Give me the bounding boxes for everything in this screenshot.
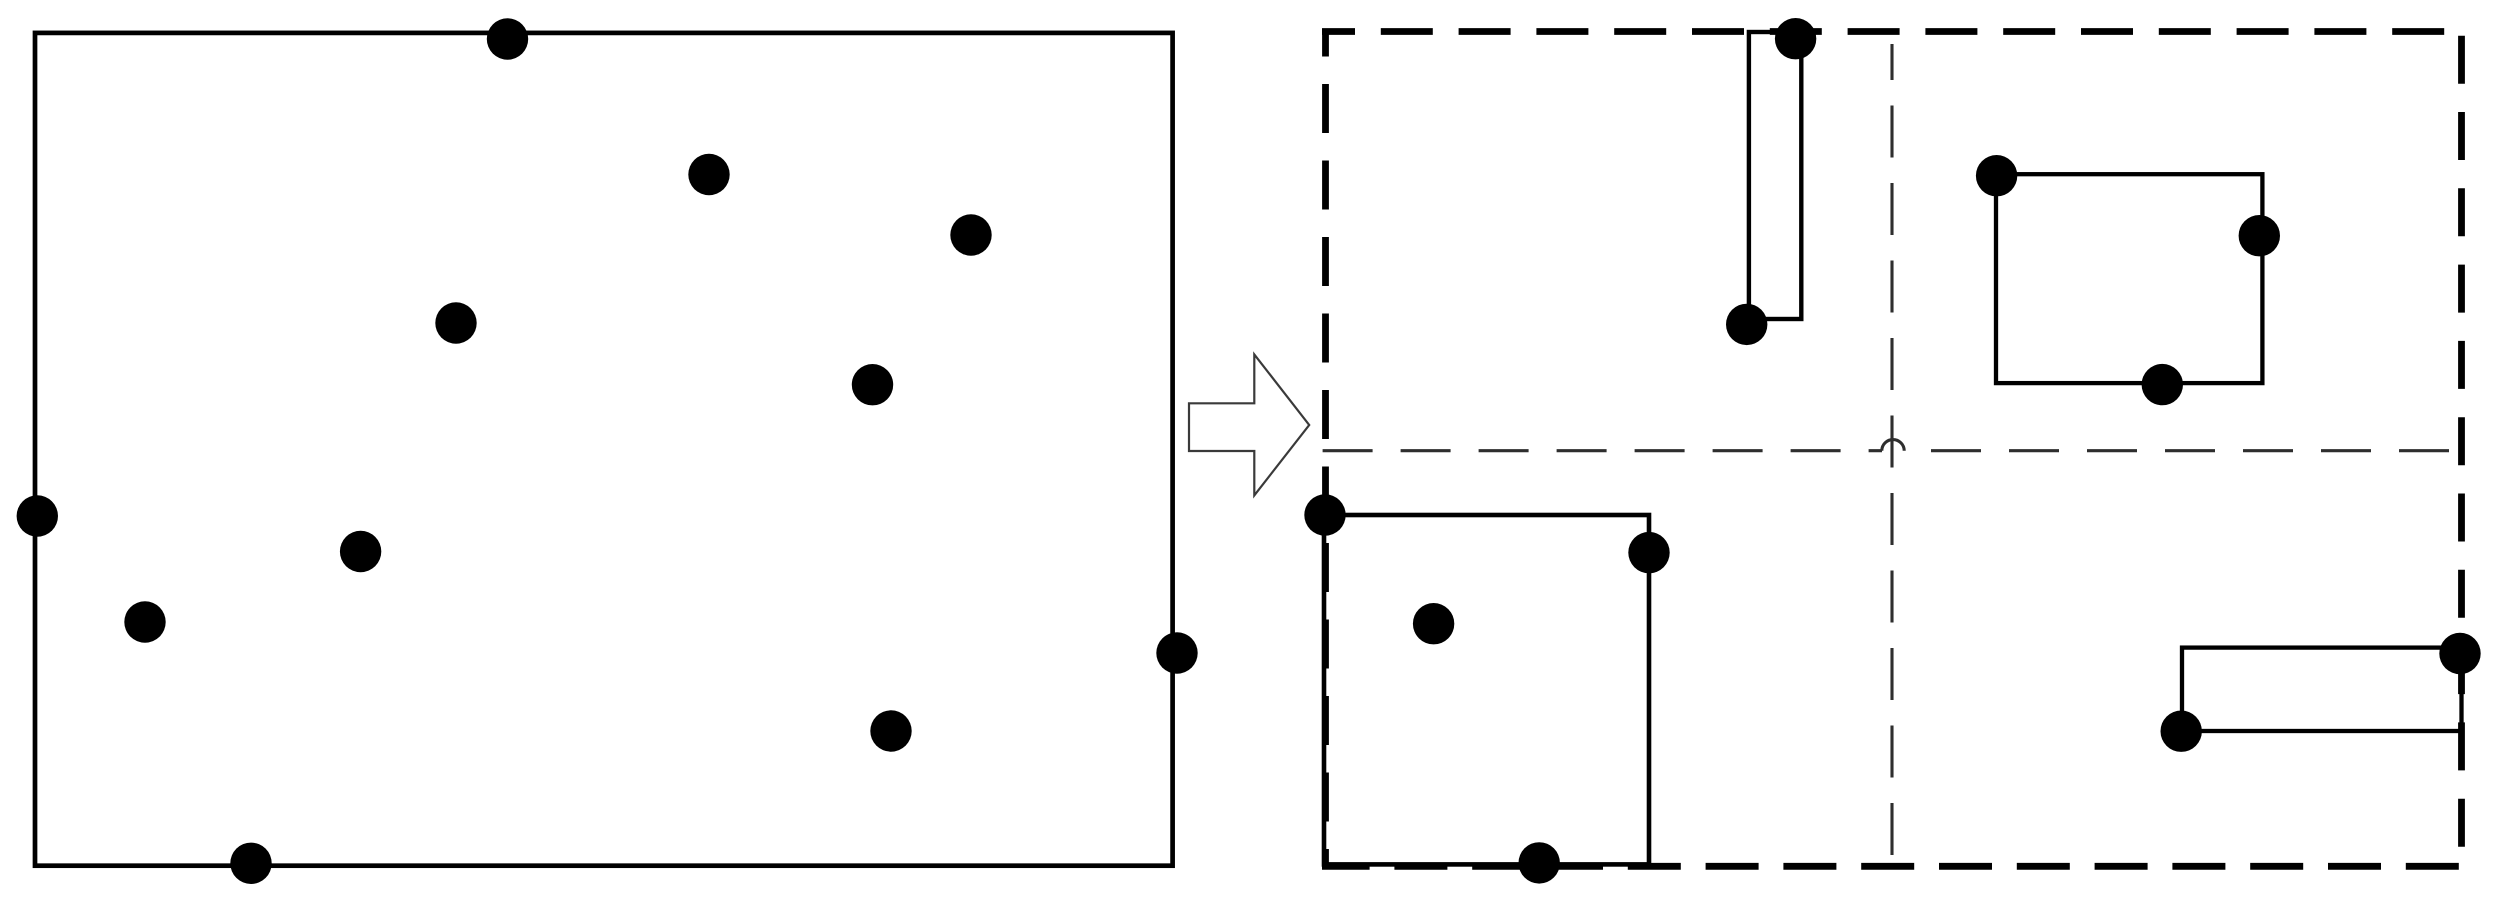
SE point Q10 (2439, 633, 2480, 674)
point P7 (340, 531, 381, 572)
point P9 (right edge) (1156, 632, 1197, 673)
NE point Q5 (2142, 364, 2183, 405)
NE bounding box (1996, 174, 2262, 383)
SE box right edge extension (2460, 731, 2464, 768)
point P4 (435, 302, 476, 343)
dashed partition: left border (1322, 32, 1329, 867)
dashed partition: bottom border (1322, 863, 2465, 870)
point P1 (top edge) (487, 18, 528, 59)
SW point Q8 (1413, 603, 1454, 644)
NW bounding box (tall narrow) (1749, 32, 1801, 319)
dashed partition: top border (1322, 28, 2465, 35)
dashed divider: horizontal left half (1323, 449, 1882, 452)
point P11 (bottom edge) (230, 843, 271, 884)
point P5 (852, 364, 893, 405)
dashed divider: vertical (1890, 44, 1893, 866)
dashed divider: horizontal right half (1904, 449, 2461, 452)
point P6 (left edge) (17, 495, 58, 536)
SW point Q9 (1519, 842, 1560, 883)
SW point Q7 (1628, 532, 1669, 573)
point P2 (688, 154, 729, 195)
SE point Q11 (2161, 711, 2202, 752)
point P8 (124, 601, 165, 642)
point P3 (950, 214, 991, 255)
point P10 (870, 710, 911, 751)
NW point Q1 (1775, 18, 1816, 59)
NE point Q4 (2239, 215, 2280, 256)
dashed partition: right border (2458, 36, 2465, 867)
divider crossing jump arc (1882, 440, 1904, 451)
NE point Q3 (1976, 155, 2017, 196)
SE bounding box (2182, 648, 2462, 731)
NW point Q2 (1726, 304, 1767, 345)
block arrow (1189, 354, 1309, 495)
SW point Q6 (1304, 494, 1345, 535)
left region rectangle (35, 33, 1173, 866)
SW bounding box (1324, 515, 1649, 864)
